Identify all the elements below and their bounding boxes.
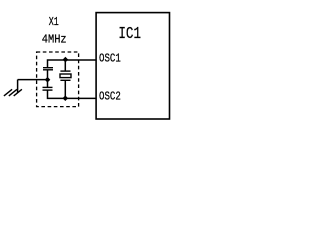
capacitor C2 top plate <box>43 86 53 88</box>
wire C1 to ground node <box>47 70 49 80</box>
IC IC1 box <box>96 13 169 119</box>
wire OSC2 net (bottom) <box>48 90 97 98</box>
crystal X1 top plate <box>60 70 70 72</box>
wire OSC1 net (top) <box>48 60 97 67</box>
svg-text:4MHz: 4MHz <box>42 32 67 46</box>
ground lead <box>17 80 19 93</box>
junction node bottom (OSC2/crystal) <box>63 95 69 101</box>
crystal X1 bottom lead <box>64 80 66 98</box>
ground hatch 1 <box>14 89 22 96</box>
svg-text:OSC1: OSC1 <box>99 52 121 66</box>
crystal X1 top lead <box>64 60 66 71</box>
capacitor C1 top plate <box>43 67 53 69</box>
capacitor C2 bottom plate <box>43 89 53 91</box>
crystal X1 bottom plate <box>60 79 70 81</box>
svg-text:IC1: IC1 <box>118 25 141 44</box>
svg-text:OSC2: OSC2 <box>99 90 121 104</box>
svg-text:X1: X1 <box>49 15 59 29</box>
ground hatch 2 <box>9 89 17 96</box>
junction node top (OSC1/crystal) <box>63 57 69 63</box>
crystal X1 body <box>60 74 71 78</box>
ground hatch 3 <box>4 89 12 96</box>
dashed enclosure around crystal X1 <box>37 52 79 107</box>
capacitor C1 bottom plate <box>43 69 53 71</box>
wire ground rail <box>18 79 48 81</box>
wire node to C2 <box>47 80 49 88</box>
junction node ground/C1/C2 <box>45 77 51 83</box>
